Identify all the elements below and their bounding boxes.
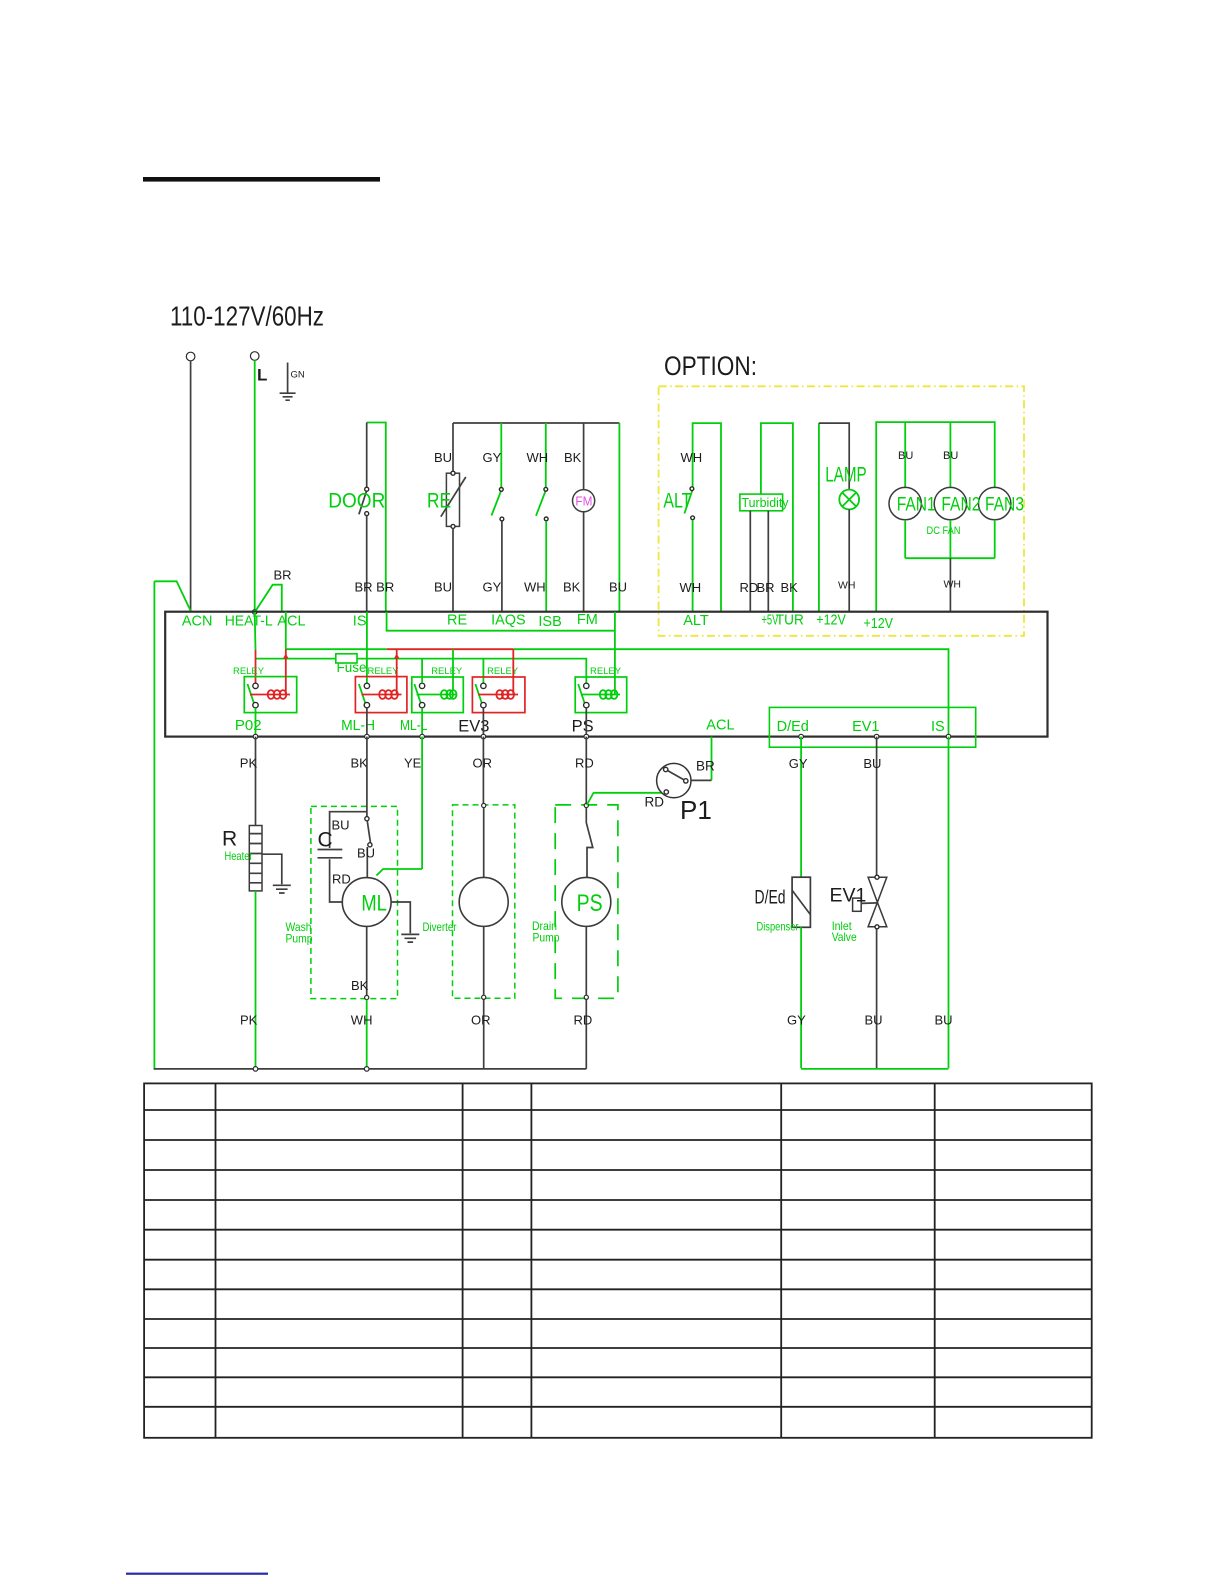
svg-text:BU: BU [434,450,452,465]
svg-text:FM: FM [575,494,592,509]
svg-text:RD: RD [645,795,665,810]
svg-text:WH: WH [680,580,702,595]
svg-text:GN: GN [291,370,305,381]
svg-text:BK: BK [564,450,582,465]
node diverter top [482,803,486,807]
switch ALT [684,487,694,520]
wire ACN hop to left rail [154,581,190,611]
wire BU upper EV1 [876,737,878,876]
svg-text:WH: WH [351,1013,373,1028]
wire ACL drop [285,612,287,650]
svg-text:IS: IS [353,614,367,630]
wire RE upper [452,423,454,471]
wire BU-FM link inside board [387,612,615,695]
svg-text:+12V: +12V [864,616,894,632]
wire coil feed K4 red [512,649,514,694]
svg-text:RE: RE [447,613,467,629]
relay K3 ML-L [412,666,464,713]
svg-text:EV3: EV3 [458,718,489,736]
switch IAQS [492,488,504,521]
motor ML [342,878,391,927]
wire turbidity RD [749,511,751,612]
wire LAMP left [818,423,820,612]
svg-text:BR: BR [696,759,715,774]
svg-text:Diverter: Diverter [423,920,457,934]
svg-text:P1: P1 [680,795,712,825]
svg-text:Pump: Pump [533,930,560,944]
fuse bus [256,659,587,684]
motor PS [562,877,611,926]
relay output drops [255,708,257,735]
ground heater [273,885,291,893]
node drain top [584,803,588,807]
svg-text:OPTION:: OPTION: [664,351,757,381]
switch drain thermal [586,808,593,878]
wire RE lower [452,528,454,611]
svg-text:FM: FM [577,612,598,628]
door switch branch top link [367,423,386,612]
parts table [144,1083,1092,1437]
svg-text:C: C [318,829,333,852]
fan bus top [876,422,995,612]
relay K2 ML-H [355,666,407,713]
wire HEAT-L drop red to relay K1 [255,650,257,683]
wire GY lower [800,927,802,1068]
svg-text:WH: WH [944,579,962,591]
heater R [249,826,262,891]
svg-text:IAQS: IAQS [491,613,525,629]
nodes board bottom edge [253,734,258,739]
wire PS bottom [585,926,587,997]
wash pump enclosure [311,806,398,998]
relay K1 P02 [233,666,297,713]
diverter enclosure [453,805,515,998]
svg-text:BR: BR [757,580,775,595]
svg-text:DOOR: DOOR [328,489,385,512]
svg-text:OR: OR [473,756,493,771]
node wash box bottom [365,995,369,999]
svg-text:GY: GY [787,1013,806,1028]
svg-text:L: L [257,366,267,385]
fuse F1 [336,654,357,663]
bottom bus right green [801,1068,948,1070]
svg-text:TUR: TUR [776,612,804,628]
door switch IS [359,487,369,515]
wire IS return [948,737,950,1069]
capacitor C bottom wire [330,859,343,902]
wire diverter to motor [483,808,485,878]
relay K5 PS [575,666,627,713]
capacitor C [318,850,343,858]
svg-text:P02: P02 [235,717,262,734]
svg-text:Turbidity: Turbidity [742,495,789,510]
svg-text:PK: PK [240,756,258,771]
svg-text:EV1: EV1 [852,719,879,735]
svg-text:ALT: ALT [663,489,691,512]
capacitor C top wire [330,812,367,848]
wire FM upper [583,423,585,490]
wire WH lower green [366,1000,368,1069]
svg-text:ACN: ACN [182,614,213,630]
wire BK from board [366,737,368,817]
svg-text:YE: YE [404,756,422,771]
wire ISB lower [545,521,547,612]
turbidity sensor box [740,494,783,511]
svg-text:BU: BU [865,1013,883,1028]
svg-text:RD: RD [575,756,594,771]
fan bus bottom [905,520,995,558]
svg-text:BU: BU [434,580,452,595]
terminal ACN [186,352,195,361]
svg-text:Pump: Pump [286,931,313,945]
svg-text:OR: OR [471,1013,491,1028]
svg-text:RELEY: RELEY [431,666,463,677]
sensor top bus [453,422,619,424]
svg-text:BU: BU [943,450,958,462]
svg-text:ML-L: ML-L [400,717,428,734]
svg-text:WH: WH [681,450,703,465]
motor FAN3 [979,487,1011,519]
coil bus green left [286,648,387,650]
svg-text:WH: WH [838,580,856,592]
node drain bottom [584,995,588,999]
wire turbidity BR [767,511,769,612]
svg-text:BK: BK [351,756,369,771]
svg-text:ML: ML [361,891,387,916]
svg-text:BU: BU [332,818,350,833]
svg-text:Fuse: Fuse [337,660,367,675]
wire ML bottom [366,926,368,997]
terminal L [250,352,259,361]
svg-text:BK: BK [351,978,369,993]
svg-text:BU: BU [898,450,913,462]
svg-text:HEAT-L: HEAT-L [225,614,273,630]
wire fan WH [949,558,951,612]
svg-text:BU: BU [357,846,375,861]
svg-text:GY: GY [483,450,502,465]
svg-text:DC FAN: DC FAN [927,525,961,537]
svg-text:ML-H: ML-H [341,717,375,734]
wire YE from board [421,737,423,869]
svg-text:FAN2: FAN2 [941,494,980,515]
svg-text:FAN1: FAN1 [897,494,936,515]
svg-text:ALT: ALT [683,613,709,629]
OPTION dashed enclosure [659,386,1024,636]
wire LAMP top and right [819,423,849,490]
wire BR hop HEAT-L to ACL [255,585,282,612]
wire BU right [618,423,620,612]
coil bus red middle [387,648,514,650]
wire L vertical [254,360,256,612]
svg-text:R: R [222,828,237,851]
relay K4 EV3 [472,666,525,713]
dispenser D/Ed [792,877,810,927]
node diverter bottom [482,995,486,999]
wire RD upper [585,737,587,806]
svg-text:PS: PS [572,718,594,736]
svg-text:BR: BR [274,568,292,583]
motor FAN2 [934,487,966,519]
bottom bus left [154,1068,587,1070]
svg-text:LAMP: LAMP [825,464,867,487]
svg-text:GY: GY [483,580,502,595]
svg-text:BR BR: BR BR [355,580,395,595]
svg-text:RELEY: RELEY [233,666,265,677]
motor FAN1 [889,487,921,519]
motor diverter [459,877,508,926]
connector box D/Ed EV1 IS [769,707,975,747]
wire OR lower [483,999,485,1069]
ground GN symbol [280,393,296,400]
svg-text:110-127V/60Hz: 110-127V/60Hz [170,301,324,332]
wire LAMP lower [848,509,850,612]
wire switch to ML [366,847,368,878]
wire ALT loop [693,423,721,612]
wire coil feed K3 green [452,649,454,691]
wire IAQS lower [501,521,503,612]
svg-text:EV1: EV1 [830,884,867,906]
wire door switch upper [366,423,368,488]
footer blue rule [126,1573,268,1575]
wire P1 black link [688,779,712,781]
wire PS to P1 green [587,793,666,805]
wire turbidity loop [761,423,793,612]
svg-text:BK: BK [781,580,799,595]
wire IAQS upper [500,423,502,488]
svg-text:GY: GY [789,756,808,771]
wire coil feed K1 red arrow [285,649,287,694]
svg-text:PS: PS [577,890,603,917]
wire FM lower [583,512,585,612]
control board outline [165,612,1047,737]
inlet valve EV1 [853,875,887,929]
switch ISB [536,487,548,520]
wire YE link diagonal [376,869,422,876]
svg-text:IS: IS [931,719,945,735]
svg-text:RE: RE [427,489,451,512]
svg-text:ACL: ACL [277,614,305,630]
svg-text:D/Ed: D/Ed [777,719,809,735]
lamp symbol [839,490,859,510]
svg-text:RELEY: RELEY [368,666,400,677]
svg-text:FAN3: FAN3 [985,494,1024,515]
svg-text:+12V: +12V [816,612,846,628]
svg-text:Valve: Valve [832,930,857,944]
fan motor FM [573,490,595,512]
ground GN wire [287,363,289,393]
svg-text:RD: RD [740,580,759,595]
wire HEAT-L drop green [254,612,257,650]
svg-text:BK: BK [563,580,581,595]
wire diverter bottom [483,926,485,997]
wire ALT lower [692,520,694,612]
node PK bus [253,1067,258,1072]
svg-text:Heater: Heater [225,849,253,863]
node WH bus [364,1067,369,1072]
svg-text:BU: BU [863,756,881,771]
wire OR upper [482,737,484,806]
drain pump enclosure [555,805,618,998]
wire coil feed K2 red arrow [396,649,398,694]
pressure switch P1 [657,763,691,797]
svg-text:WH: WH [524,580,546,595]
svg-text:BU: BU [935,1013,953,1028]
heading underline bar [143,177,380,182]
wire ACL drop to P1 [711,737,713,781]
wire K2 top pin from fuse bus [421,659,423,684]
wire BU lower EV1 [876,929,878,1069]
wire ACN vertical [190,361,192,612]
svg-text:WH: WH [527,450,549,465]
wire PK lower green [255,891,257,1068]
svg-text:RELEY: RELEY [590,666,622,677]
wire PK upper [255,737,257,826]
thermistor RE [441,471,466,528]
svg-text:ACL: ACL [706,718,734,734]
wire FAN2 upper [949,422,951,487]
coil bus green right to IS [513,649,948,736]
svg-text:PK: PK [240,1013,258,1028]
svg-text:Dispenser: Dispenser [757,920,799,934]
node HEAT-L [252,610,257,615]
switch ML thermal [365,817,372,847]
wire K4 top pin from fuse bus [482,659,484,684]
wire IS drop to relay K2 [366,612,368,684]
wire RD lower [585,999,587,1069]
svg-text:ISB: ISB [538,614,561,630]
wire GY upper [800,737,802,878]
svg-text:RD: RD [574,1013,593,1028]
wire left return rail [153,581,155,1068]
wire door switch lower [366,516,368,612]
wire ML ground branch [391,902,410,933]
svg-text:BU: BU [609,580,627,595]
wire heater ground branch [262,854,282,884]
ground ML [401,934,419,942]
svg-text:RD: RD [332,872,351,887]
wire FAN1 upper [904,422,906,487]
svg-text:D/Ed: D/Ed [755,886,786,908]
wire ISB upper [545,423,547,488]
